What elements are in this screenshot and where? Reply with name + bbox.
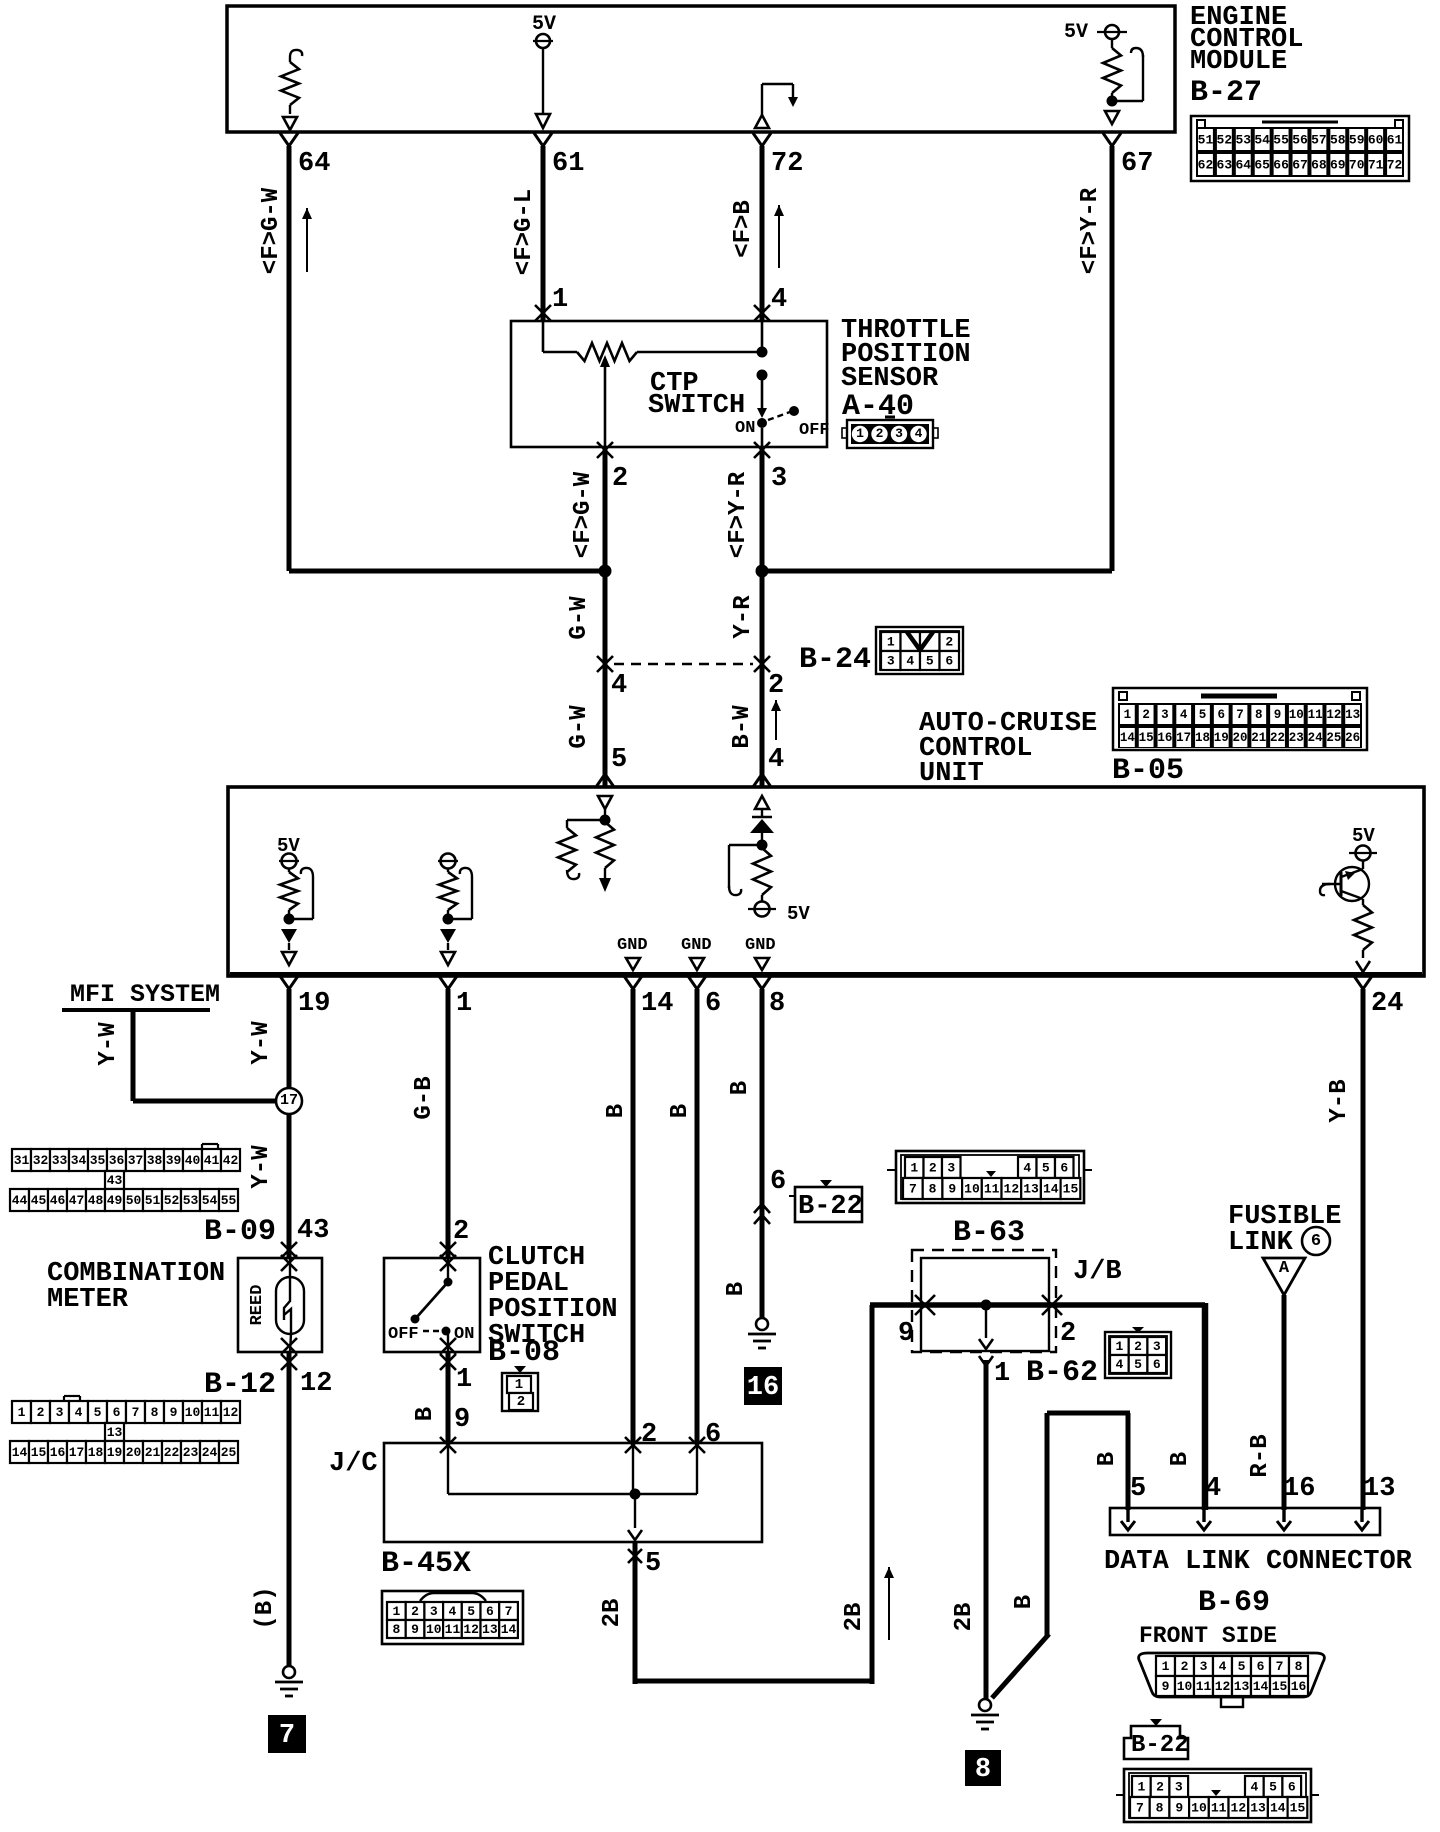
J/B pin 9 label — [898, 1319, 914, 1349]
connector mark at TPS pin 2 — [597, 442, 613, 458]
svg-text:68: 68 — [1311, 158, 1327, 173]
svg-text:B-W: B-W — [729, 705, 756, 749]
svg-text:5: 5 — [467, 1604, 475, 1619]
svg-text:5: 5 — [926, 654, 934, 669]
wire label G-B — [411, 1076, 438, 1119]
connector B-63 pin grid — [887, 1151, 1092, 1203]
wire ECM pin 67 to Y-R bus — [1103, 133, 1121, 571]
svg-text:GND: GND — [681, 936, 712, 955]
wire MFI to junction 17 — [133, 1010, 280, 1101]
svg-text:4: 4 — [906, 654, 914, 669]
svg-text:Y-W: Y-W — [248, 1021, 275, 1065]
svg-text:17: 17 — [69, 1445, 85, 1460]
svg-text:25: 25 — [1326, 731, 1341, 745]
wire label G-W above B-24 — [566, 596, 593, 640]
fusible link A symbol — [1263, 1258, 1305, 1295]
svg-text:4: 4 — [1205, 1474, 1221, 1504]
svg-text:15: 15 — [1139, 731, 1154, 745]
svg-text:38: 38 — [147, 1153, 163, 1168]
svg-text:8: 8 — [929, 1182, 937, 1197]
CTP switch OFF label — [799, 421, 830, 440]
svg-text:72: 72 — [1387, 158, 1403, 173]
svg-text:17: 17 — [280, 1092, 298, 1109]
svg-text:REED: REED — [248, 1285, 267, 1326]
svg-text:53: 53 — [183, 1193, 199, 1208]
wire clutch switch to J/C pin 9 — [446, 1352, 451, 1443]
auto-cruise control unit box — [228, 787, 1424, 976]
svg-text:19: 19 — [107, 1445, 123, 1460]
ENGINE CONTROL MODULE label — [1190, 3, 1303, 110]
FRONT SIDE label — [1139, 1623, 1277, 1649]
B-05 label — [1112, 754, 1184, 788]
J/B pin 2 label — [1060, 1319, 1076, 1349]
TPS internal wire resistor to pin4 node — [637, 351, 762, 354]
connector mark J/C pin 5 — [628, 1549, 642, 1563]
svg-text:2B: 2B — [951, 1603, 978, 1632]
DLC pin 13 label — [1363, 1474, 1395, 1504]
svg-text:55: 55 — [1273, 133, 1289, 148]
clutch switch OFF label — [388, 1325, 419, 1344]
svg-text:12: 12 — [223, 1405, 239, 1420]
svg-text:B-45X: B-45X — [381, 1547, 471, 1581]
svg-text:6: 6 — [1153, 1357, 1161, 1372]
clutch switch ON label — [454, 1325, 474, 1344]
wire ACCU pin 6 down to J/C — [688, 976, 706, 1443]
pin 14 label — [641, 989, 673, 1019]
svg-text:54: 54 — [1254, 133, 1270, 148]
svg-text:5: 5 — [645, 1549, 661, 1579]
svg-text:5: 5 — [1199, 708, 1207, 722]
5V label at ACCU pin 4 — [787, 903, 810, 925]
wire junction 17 to combination meter — [287, 1114, 292, 1258]
svg-text:J/C: J/C — [329, 1449, 378, 1479]
svg-text:32: 32 — [33, 1153, 49, 1168]
connector mark J/B pin 1 — [979, 1356, 993, 1366]
DLC pin 5 label — [1130, 1474, 1146, 1504]
J/B label — [1073, 1257, 1122, 1287]
svg-text:14: 14 — [1253, 1679, 1269, 1694]
svg-text:13: 13 — [1234, 1679, 1250, 1694]
svg-text:A: A — [1279, 1259, 1290, 1278]
junction block J/B inner box — [921, 1258, 1049, 1351]
svg-text:21: 21 — [145, 1445, 161, 1460]
svg-text:60: 60 — [1368, 133, 1384, 148]
svg-text:<F>G-W: <F>G-W — [570, 471, 597, 558]
svg-text:B-12: B-12 — [204, 1368, 276, 1402]
connector B-24 pin grid — [876, 627, 963, 674]
wire ECM pin 64 to G-W bus — [280, 133, 298, 571]
wire 2B horizontal run — [635, 1679, 872, 1684]
svg-text:2: 2 — [768, 671, 784, 701]
GND labels inside ACCU — [617, 936, 776, 970]
svg-text:4: 4 — [771, 285, 787, 315]
B-12 label — [204, 1368, 276, 1402]
svg-text:22: 22 — [1270, 731, 1285, 745]
wire ECM pin 61 to TPS pin 1 — [534, 133, 552, 321]
connector B-24 crossing marks — [597, 656, 770, 672]
svg-text:7: 7 — [279, 1721, 295, 1751]
B-62 label — [1026, 1356, 1098, 1390]
svg-text:B-09: B-09 — [204, 1215, 276, 1249]
svg-text:6: 6 — [113, 1405, 121, 1420]
svg-text:9: 9 — [1175, 1801, 1183, 1816]
svg-text:39: 39 — [166, 1153, 182, 1168]
svg-text:16: 16 — [1283, 1474, 1315, 1504]
svg-text:2: 2 — [641, 1420, 657, 1450]
resistor inside ECM at pin 64 — [281, 50, 302, 130]
connector B-12 pin grid — [10, 1396, 240, 1463]
direction arrow on wire 72 — [774, 205, 784, 268]
svg-text:7: 7 — [1136, 1801, 1144, 1816]
svg-text:6: 6 — [486, 1604, 494, 1619]
svg-text:G-W: G-W — [566, 705, 593, 749]
connector marks J/C pins 2 and 6 — [625, 1437, 705, 1453]
svg-text:<F>Y-R: <F>Y-R — [1077, 187, 1104, 274]
svg-text:5V: 5V — [787, 903, 810, 925]
svg-text:13: 13 — [1250, 1801, 1266, 1816]
svg-text:18: 18 — [1195, 731, 1210, 745]
input network at ACCU pin 5 — [558, 796, 614, 892]
ground G7 — [275, 1666, 303, 1696]
svg-text:14: 14 — [1270, 1801, 1286, 1816]
wire label Y-W below junction — [248, 1145, 275, 1189]
svg-text:8: 8 — [1255, 708, 1263, 722]
svg-text:2: 2 — [876, 426, 884, 441]
wire ACCU pin 19 down — [280, 976, 298, 1089]
svg-text:2: 2 — [929, 1161, 937, 1176]
TPS wiper arrow to pin 2 — [600, 355, 610, 447]
svg-text:12: 12 — [300, 1369, 332, 1399]
TPS pin 3 label — [771, 464, 787, 494]
connector mark J/C pin 9 — [440, 1437, 456, 1453]
CTP switch ON label — [735, 419, 755, 438]
svg-text:5: 5 — [1042, 1161, 1050, 1176]
svg-text:8: 8 — [392, 1622, 400, 1637]
J/C pin 5 label — [645, 1549, 661, 1579]
svg-text:3: 3 — [887, 654, 895, 669]
svg-text:B-24: B-24 — [799, 643, 871, 677]
svg-text:B-05: B-05 — [1112, 754, 1184, 788]
svg-text:65: 65 — [1254, 158, 1270, 173]
Y-R bus horizontal — [760, 569, 1112, 574]
svg-text:UNIT: UNIT — [919, 759, 984, 789]
svg-text:64: 64 — [1235, 158, 1251, 173]
junction block J/B dashed outline — [912, 1250, 1056, 1352]
svg-text:ON: ON — [735, 419, 755, 438]
connector B-22 first — [789, 1180, 863, 1222]
svg-text:48: 48 — [88, 1193, 104, 1208]
svg-text:ON: ON — [454, 1325, 474, 1344]
svg-text:9: 9 — [1162, 1679, 1170, 1694]
svg-text:1: 1 — [1162, 1659, 1170, 1674]
svg-text:46: 46 — [50, 1193, 66, 1208]
svg-text:1: 1 — [887, 635, 895, 650]
internal hook at ECM pin 72 — [755, 84, 798, 128]
svg-text:14: 14 — [501, 1622, 517, 1637]
svg-text:45: 45 — [31, 1193, 47, 1208]
B-24 label — [799, 643, 871, 677]
svg-text:5: 5 — [94, 1405, 102, 1420]
svg-text:3: 3 — [430, 1604, 438, 1619]
svg-text:17: 17 — [1176, 731, 1191, 745]
wire label (B) — [252, 1586, 279, 1629]
svg-text:6: 6 — [705, 989, 721, 1019]
svg-text:61: 61 — [552, 149, 584, 179]
svg-text:<F>B: <F>B — [730, 200, 757, 258]
svg-text:1: 1 — [994, 1359, 1010, 1389]
direction arrow on wire 64 — [302, 208, 312, 272]
wire label Y-R above B-24 — [730, 595, 757, 639]
wire label Y-B — [1326, 1079, 1353, 1122]
svg-text:36: 36 — [109, 1153, 125, 1168]
svg-text:DATA LINK CONNECTOR: DATA LINK CONNECTOR — [1104, 1547, 1413, 1577]
connector B-05 pin grid — [1113, 688, 1367, 750]
svg-text:5V: 5V — [532, 13, 556, 36]
svg-text:3: 3 — [947, 1161, 955, 1176]
svg-text:7: 7 — [505, 1604, 513, 1619]
DATA LINK CONNECTOR label — [1104, 1547, 1413, 1577]
svg-text:3: 3 — [1175, 1780, 1183, 1795]
svg-text:62: 62 — [1198, 158, 1214, 173]
TPS pin4 node dots — [757, 347, 768, 381]
svg-text:1: 1 — [910, 1161, 918, 1176]
wire label 2B on riser — [841, 1603, 868, 1632]
pin 67 label — [1121, 149, 1153, 179]
svg-text:(B): (B) — [252, 1586, 279, 1629]
svg-text:7: 7 — [909, 1182, 917, 1197]
svg-text:MODULE: MODULE — [1190, 47, 1287, 77]
svg-text:2: 2 — [1181, 1659, 1189, 1674]
svg-text:5V: 5V — [1352, 825, 1375, 847]
svg-text:8: 8 — [151, 1405, 159, 1420]
J/C label — [329, 1449, 378, 1479]
svg-text:B: B — [667, 1104, 694, 1118]
svg-text:1: 1 — [856, 426, 864, 441]
svg-text:70: 70 — [1349, 158, 1365, 173]
svg-text:44: 44 — [12, 1193, 28, 1208]
pin 19 label — [298, 989, 330, 1019]
pin 64 label — [298, 149, 330, 179]
svg-text:40: 40 — [185, 1153, 201, 1168]
ground G8 — [971, 1699, 999, 1729]
svg-text:11: 11 — [1308, 708, 1323, 722]
svg-text:43: 43 — [107, 1173, 123, 1188]
svg-text:1: 1 — [1124, 708, 1132, 722]
connector B-62 pin grid — [1105, 1327, 1171, 1378]
wire label <F>B — [730, 200, 757, 258]
svg-text:R-B: R-B — [1247, 1434, 1274, 1477]
svg-text:SWITCH: SWITCH — [648, 391, 745, 421]
wire label B on DLC pin5 wire — [1094, 1452, 1121, 1466]
svg-text:15: 15 — [31, 1445, 47, 1460]
svg-text:13: 13 — [482, 1622, 498, 1637]
TPS internal wire pin1 to resistor — [543, 321, 577, 352]
TPS resistor element — [577, 343, 637, 361]
svg-text:1: 1 — [18, 1405, 26, 1420]
svg-text:18: 18 — [88, 1445, 104, 1460]
svg-text:63: 63 — [1217, 158, 1233, 173]
svg-text:13: 13 — [107, 1425, 123, 1440]
pin 24 label — [1371, 989, 1403, 1019]
svg-text:13: 13 — [1363, 1474, 1395, 1504]
wire ACCU pin 14 down to J/C — [624, 976, 642, 1443]
svg-text:41: 41 — [204, 1153, 220, 1168]
svg-text:11: 11 — [445, 1622, 461, 1637]
svg-text:8: 8 — [975, 1755, 991, 1785]
svg-text:9: 9 — [898, 1319, 914, 1349]
svg-text:42: 42 — [223, 1153, 239, 1168]
svg-text:2: 2 — [1060, 1319, 1076, 1349]
svg-text:15: 15 — [1290, 1801, 1306, 1816]
svg-text:8: 8 — [1156, 1801, 1164, 1816]
svg-text:9: 9 — [948, 1182, 956, 1197]
svg-text:B: B — [1167, 1452, 1194, 1466]
svg-text:FRONT SIDE: FRONT SIDE — [1139, 1623, 1277, 1649]
THROTTLE POSITION SENSOR label — [841, 316, 971, 424]
svg-text:14: 14 — [1043, 1182, 1059, 1197]
svg-text:B: B — [603, 1104, 630, 1118]
connector marks J/B pins 9 and 2 — [915, 1295, 1062, 1315]
connector B-69 outline — [1139, 1653, 1325, 1707]
B-24 pin 2 label — [768, 671, 784, 701]
wire TPS pin 3 down to ACCU pin 4 — [760, 447, 765, 787]
svg-text:12: 12 — [1215, 1679, 1231, 1694]
svg-text:4: 4 — [449, 1604, 457, 1619]
svg-text:7: 7 — [1236, 708, 1244, 722]
svg-text:MFI SYSTEM: MFI SYSTEM — [70, 980, 220, 1009]
MFI SYSTEM bus bar — [62, 1008, 210, 1012]
connector marks entering ACCU — [596, 774, 771, 787]
pin 8 label — [769, 989, 785, 1019]
svg-text:35: 35 — [90, 1153, 106, 1168]
wire label 2B on ground wire — [951, 1603, 978, 1632]
svg-text:B-22: B-22 — [798, 1192, 863, 1222]
svg-text:5: 5 — [611, 745, 627, 775]
svg-text:3: 3 — [895, 426, 903, 441]
wire label G-W below B-24 — [566, 705, 593, 749]
svg-text:1: 1 — [456, 1365, 472, 1395]
svg-text:12: 12 — [1004, 1182, 1020, 1197]
wire TPS pin 2 down to ACCU pin 5 — [603, 447, 608, 787]
svg-text:2: 2 — [612, 464, 628, 494]
wire label B-W below B-24 — [729, 705, 756, 749]
pin 72 label — [771, 149, 803, 179]
MFI SYSTEM label — [70, 980, 220, 1009]
DLC pin 4 label — [1205, 1474, 1221, 1504]
svg-text:57: 57 — [1311, 133, 1327, 148]
wire ECM pin 72 to TPS pin 4 — [753, 133, 771, 321]
svg-text:Y-W: Y-W — [248, 1145, 275, 1189]
svg-text:19: 19 — [298, 989, 330, 1019]
5V supply and resistor at ECM pin 67 — [1064, 21, 1143, 124]
splice chevrons on pin 8 wire — [754, 1204, 770, 1224]
svg-text:3: 3 — [771, 464, 787, 494]
ground reference box 16 — [744, 1367, 782, 1405]
svg-text:22: 22 — [164, 1445, 180, 1460]
svg-text:4: 4 — [1219, 1659, 1227, 1674]
svg-text:4: 4 — [611, 671, 627, 701]
svg-text:2: 2 — [945, 635, 953, 650]
FUSIBLE LINK label — [1228, 1202, 1341, 1258]
input network at ACCU pin 4 — [729, 796, 776, 917]
clutch switch pin 2 label — [453, 1217, 469, 1247]
svg-text:1: 1 — [515, 1377, 523, 1393]
connector mark at TPS pin 1 — [535, 305, 551, 321]
svg-text:B-62: B-62 — [1026, 1356, 1098, 1390]
B-63 label — [953, 1216, 1025, 1250]
svg-text:50: 50 — [126, 1193, 142, 1208]
svg-text:6: 6 — [1060, 1161, 1068, 1176]
svg-text:1: 1 — [1137, 1780, 1145, 1795]
svg-text:B-22: B-22 — [1131, 1732, 1189, 1759]
pin 8 wire splice label 6 — [770, 1167, 786, 1197]
connector mark at TPS pin 3 — [754, 442, 770, 458]
svg-text:Y-B: Y-B — [1326, 1079, 1353, 1122]
junction node 17 — [276, 1088, 302, 1114]
svg-text:16: 16 — [747, 1373, 779, 1403]
svg-text:2: 2 — [517, 1394, 525, 1410]
svg-text:14: 14 — [12, 1445, 28, 1460]
svg-text:4: 4 — [1023, 1161, 1031, 1176]
svg-text:3: 3 — [56, 1405, 64, 1420]
svg-text:10: 10 — [1177, 1679, 1193, 1694]
svg-text:10: 10 — [1191, 1801, 1207, 1816]
J/B branch down to pin 1 — [979, 1305, 993, 1349]
wire DLC pin 5 branch — [992, 1413, 1130, 1698]
svg-text:55: 55 — [221, 1193, 237, 1208]
svg-text:37: 37 — [128, 1153, 144, 1168]
throttle position sensor box — [511, 321, 827, 447]
svg-text:6: 6 — [705, 1420, 721, 1450]
svg-text:16: 16 — [50, 1445, 66, 1460]
svg-text:67: 67 — [1121, 149, 1153, 179]
J/C pin 9 label — [454, 1405, 470, 1435]
J/B internal junction node — [981, 1300, 992, 1311]
output transistor at ACCU pin 24 — [1320, 825, 1377, 972]
wire meter to ground — [287, 1352, 292, 1666]
wire label Y-W on pin 19 wire — [248, 1021, 275, 1065]
svg-text:4: 4 — [915, 426, 923, 441]
wire label B lower pin 8 wire — [723, 1282, 750, 1296]
svg-text:13: 13 — [1345, 708, 1360, 722]
svg-text:19: 19 — [1214, 731, 1229, 745]
DLC pin 16 label — [1283, 1474, 1315, 1504]
wire ACCU pin 1 down to clutch switch — [439, 976, 457, 1258]
svg-text:B-27: B-27 — [1190, 76, 1262, 110]
CLUTCH PEDAL POSITION SWITCH label — [488, 1243, 618, 1370]
CTP switch wire and contacts — [757, 321, 799, 447]
ground reference box 7 — [268, 1715, 306, 1753]
svg-text:GND: GND — [745, 936, 776, 955]
wire label B on DLC pin4 wire — [1167, 1452, 1194, 1466]
svg-text:56: 56 — [1292, 133, 1308, 148]
svg-text:47: 47 — [69, 1193, 85, 1208]
svg-text:3: 3 — [1161, 708, 1169, 722]
wire ACCU pin 24 down to DLC pin 13 — [1354, 976, 1372, 1510]
svg-text:61: 61 — [1387, 133, 1403, 148]
svg-text:3: 3 — [1200, 1659, 1208, 1674]
svg-text:5: 5 — [1134, 1357, 1142, 1372]
connector A-40 — [842, 417, 938, 448]
svg-text:53: 53 — [1235, 133, 1251, 148]
svg-text:2: 2 — [1142, 708, 1150, 722]
svg-text:15: 15 — [1272, 1679, 1288, 1694]
svg-text:23: 23 — [1289, 731, 1304, 745]
wire label <F>Y-R below TPS — [725, 471, 752, 558]
wire label R-B — [1247, 1434, 1274, 1477]
svg-text:52: 52 — [1217, 133, 1233, 148]
wire label B on pin 8 wire — [727, 1081, 754, 1095]
